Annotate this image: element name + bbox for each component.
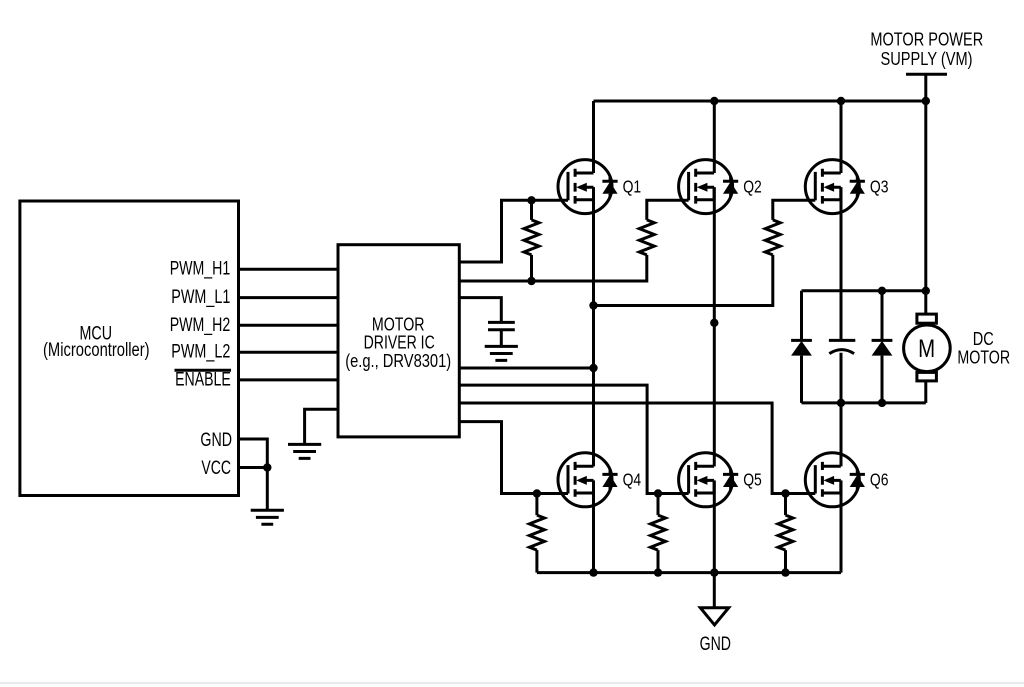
svg-text:MOTOR: MOTOR [957,347,1010,368]
resistor R6 [784,494,787,516]
transistor Q4 [558,453,618,507]
node rail Q3 [837,97,845,105]
wire PWM_L2 [239,351,339,354]
ground C1 [485,346,518,360]
node rail Q4 source [589,568,597,576]
svg-text:Q1: Q1 [623,176,642,196]
svg-text:Q5: Q5 [743,470,762,490]
node rail Q2 [710,97,718,105]
wire driver output 3 to bypass cap [459,298,501,323]
transistor Q1 [558,160,618,214]
MCU box [20,201,239,496]
resistor R1 [530,200,533,220]
node phase B dot [710,319,718,327]
transistor Q2 [679,160,739,214]
capacitor C1 [488,322,515,329]
wire phase A to R3 [594,255,773,306]
svg-text:Q2: Q2 [743,176,762,196]
wire snubber top [802,289,926,292]
node R6 top [781,489,789,497]
wire driver output 1 to Q1 gate [459,200,568,262]
wire snubber bottom [802,401,926,404]
motor driver IC box U1 [338,245,459,437]
svg-text:(Microcontroller): (Microcontroller) [43,340,150,361]
wire bottom rail [537,571,841,574]
transistor Q5 [679,453,739,507]
wire driver output 2 to R2 [459,255,647,281]
capacitor C2 snubber [829,339,855,342]
svg-text:Q4: Q4 [623,470,642,490]
wire VM to motor [924,76,927,315]
node rail Q5 source GND [710,568,718,576]
svg-text:Q6: Q6 [870,470,889,490]
node rail VM [922,97,930,105]
node VCC-GND junction [263,463,271,471]
wire Q6 source to bottom rail [840,481,843,573]
node R4 top [533,489,541,497]
wire Q2 source to Q5 drain [713,187,716,466]
svg-text:Q3: Q3 [870,176,889,196]
node D2 top [878,287,886,295]
node cap bottom [837,399,845,407]
wire Q4 source to bottom rail [592,481,595,573]
wire PWM_H1 MCU to driver [239,268,339,271]
node phase A / R3 junction [589,301,597,309]
wire Q2 drain [713,101,716,173]
svg-text:SUPPLY (VM): SUPPLY (VM) [881,48,973,69]
ground GND triangle [700,608,728,625]
wire driver ground pin [305,409,338,444]
motor M1 top terminal [917,314,937,323]
svg-text:DRIVER IC: DRIVER IC [364,333,435,353]
transistor Q3 [805,160,865,214]
node D2 bottom [878,399,886,407]
wire driver output 6 to Q6 gate [459,403,815,494]
svg-text:ENABLE: ENABLE [175,369,231,390]
wire Q1 drain [592,101,595,173]
wire top rail VM [594,100,926,103]
svg-text:PWM_L1: PWM_L1 [171,287,230,308]
wire GND stub [713,573,716,608]
wire Q5 source to bottom rail [713,481,716,573]
motor M1 body [904,325,951,372]
svg-text:GND: GND [200,430,232,451]
wire Q3 source to snubber cap [840,187,843,340]
wire driver output 4 [459,367,593,370]
diode D1 [800,291,803,403]
node R1 bottom [527,277,535,285]
resistor R5 [657,494,660,516]
node R1 top [527,196,535,204]
svg-text:GND: GND [700,634,731,655]
wire motor bottom [924,381,927,403]
svg-text:PWM_L2: PWM_L2 [171,342,230,363]
node R6 bottom [781,568,789,576]
wire PWM_H2 [239,324,339,327]
resistor R2 [639,220,654,255]
power supply VM bar [906,73,947,76]
svg-text:VCC: VCC [201,458,231,479]
ground MCU [251,510,284,524]
wire R3 to Q3 gate [773,200,816,220]
resistor R3 [765,220,780,255]
node VM snubber top [922,287,930,295]
svg-text:MOTOR: MOTOR [372,314,425,334]
ground driver IC [288,444,321,458]
node R5 bottom [654,568,662,576]
node output 4 junction [589,364,597,372]
wire MCU VCC pin [239,468,268,511]
node R5 top [654,489,662,497]
transistor Q6 [805,453,865,507]
wire driver output 7 to Q4 gate [459,422,568,494]
svg-text:PWM_H2: PWM_H2 [170,315,231,336]
wire snubber cap to Q6 drain [840,353,843,467]
wire ENABLE [239,378,339,381]
diode D2 [881,291,884,403]
wire Q1 source to Q4 drain [592,187,595,466]
wire PWM_L1 [239,296,339,299]
wire driver output 5 to Q5 gate [459,385,688,493]
svg-text:M: M [918,335,935,363]
wire R2 to Q2 gate [647,200,689,220]
svg-text:MOTOR POWER: MOTOR POWER [870,29,983,50]
svg-text:PWM_H1: PWM_H1 [170,259,231,280]
wire Q3 drain [840,101,843,173]
svg-text:(e.g., DRV8301): (e.g., DRV8301) [345,351,451,371]
wire MCU GND pin [239,439,268,468]
motor M1 bottom terminal [917,372,937,381]
resistor R4 [535,494,538,516]
